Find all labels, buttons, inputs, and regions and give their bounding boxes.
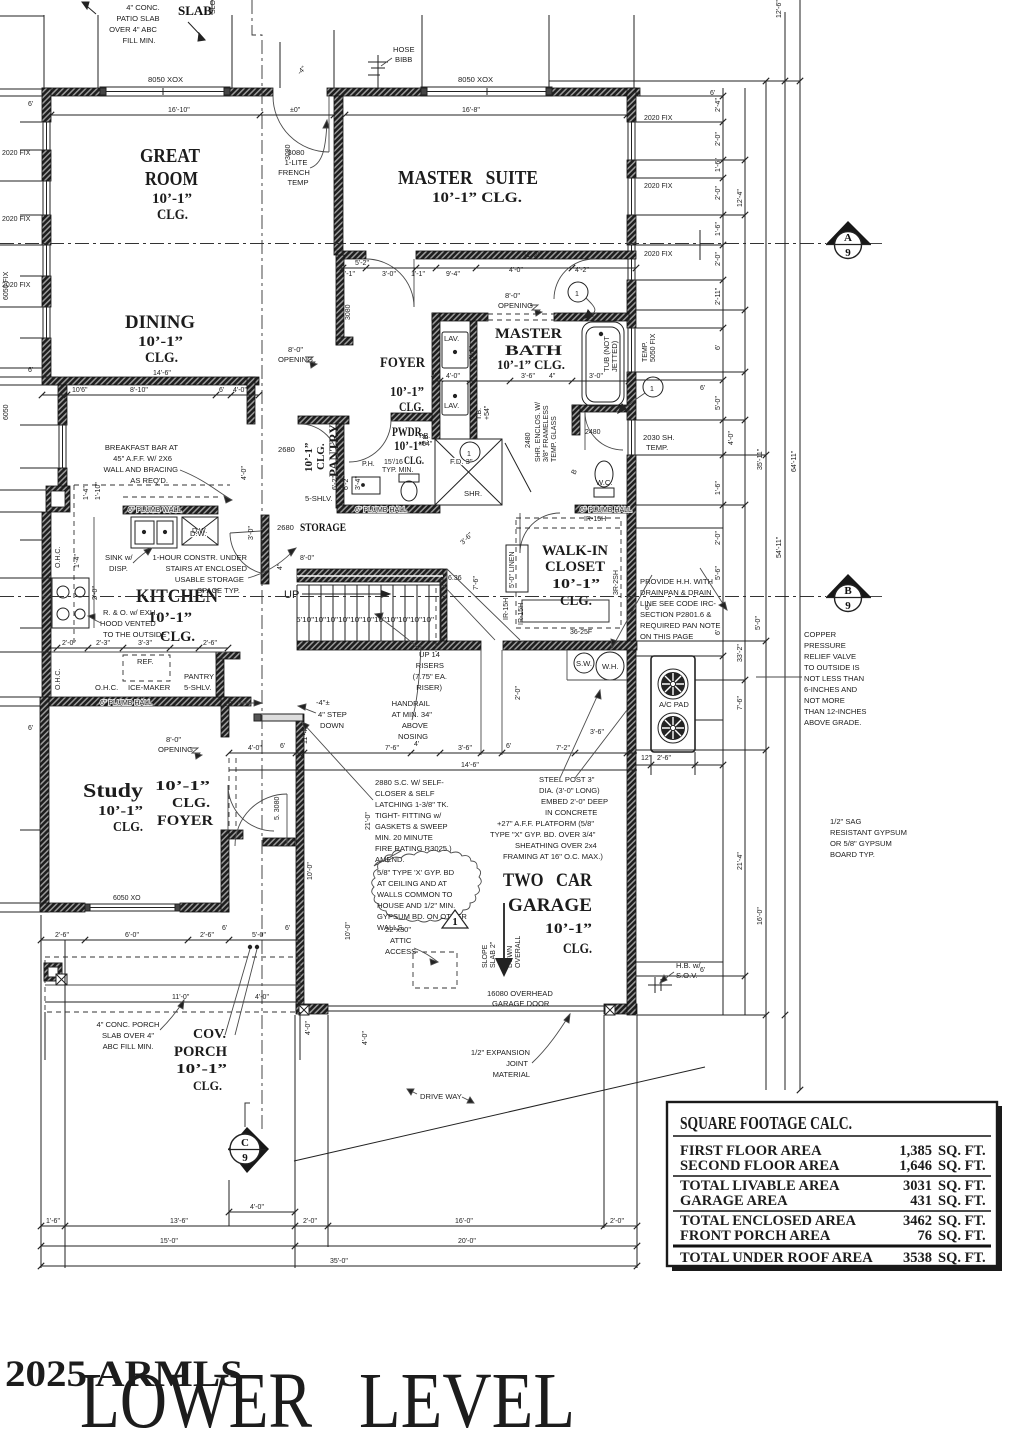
- svg-text:2'-0": 2'-0": [715, 186, 722, 200]
- svg-text:COV.: COV.: [193, 1027, 226, 1042]
- svg-text:FOYER: FOYER: [380, 355, 425, 371]
- right ladder ticks: [720, 78, 803, 1093]
- svg-text:ON THIS PAGE: ON THIS PAGE: [640, 632, 693, 641]
- svg-text:3'-6": 3'-6": [458, 745, 472, 752]
- svg-text:8'-10": 8'-10": [130, 387, 148, 394]
- svg-text:16'-10": 16'-10": [168, 107, 190, 114]
- room label PANTRY rotated: [303, 424, 341, 477]
- svg-text:Study: Study: [83, 780, 143, 802]
- porch post dots: [225, 945, 259, 1035]
- copper pressure note: [804, 630, 866, 727]
- svg-text:6" PLUMB HALL: 6" PLUMB HALL: [100, 700, 152, 707]
- svg-text:2020 FIX: 2020 FIX: [2, 150, 31, 157]
- wall foyer west: [336, 255, 344, 345]
- svg-text:PANTRY: PANTRY: [326, 424, 341, 477]
- svg-text:2'-0": 2'-0": [303, 1218, 317, 1225]
- svg-text:AS REQ'D.: AS REQ'D.: [130, 476, 168, 485]
- svg-text:±0": ±0": [224, 699, 235, 708]
- svg-text:W.H.: W.H.: [602, 662, 618, 671]
- svg-text:8050 XOX: 8050 XOX: [458, 75, 493, 84]
- svg-text:R. & O. w/ EXH.: R. & O. w/ EXH.: [103, 608, 157, 617]
- svg-text:HOUSE AND 1/2" MIN.: HOUSE AND 1/2" MIN.: [377, 901, 455, 910]
- pantry box kitchen: [216, 652, 224, 697]
- door arc walk-in closet 2680: [520, 513, 560, 553]
- svg-text:STAIRS AT ENCLOSED: STAIRS AT ENCLOSED: [166, 564, 248, 573]
- svg-text:SQ. FT.: SQ. FT.: [938, 1250, 986, 1266]
- svg-text:SLAB: SLAB: [178, 3, 212, 18]
- svg-text:21'-4": 21'-4": [737, 852, 744, 870]
- svg-text:35'-11": 35'-11": [757, 448, 764, 470]
- svg-text:21'-0": 21'-0": [365, 812, 372, 830]
- wall right exterior: [627, 88, 636, 1015]
- svg-text:1'-6": 1'-6": [46, 1218, 60, 1225]
- svg-text:4'-0": 4'-0": [241, 466, 248, 480]
- svg-text:FRENCH: FRENCH: [278, 168, 310, 177]
- hose bibb label: [393, 45, 415, 64]
- svg-text:3538: 3538: [903, 1250, 932, 1266]
- svg-text:SLOPE: SLOPE: [482, 944, 489, 968]
- svg-text:11'-0": 11'-0": [172, 994, 190, 1001]
- svg-text:IR-15H: IR-15H: [518, 603, 525, 625]
- opening 8-0 label foyer left: [278, 345, 313, 364]
- svg-text:3080: 3080: [345, 304, 352, 320]
- svg-text:3'-6": 3'-6": [459, 531, 474, 546]
- room label DINING: [125, 312, 195, 366]
- svg-text:BIBB: BIBB: [395, 55, 412, 64]
- svg-text:3'-0": 3'-0": [248, 526, 255, 540]
- svg-text:4'-0": 4'-0": [509, 267, 523, 274]
- wall study east: [221, 697, 229, 737]
- wall kitchen west jut with 6050 XO window: [58, 385, 67, 425]
- svg-text:45" A.F.F. W/ 2X6: 45" A.F.F. W/ 2X6: [113, 454, 172, 463]
- svg-text:TYPE "X" GYP. BD. OVER 3/4": TYPE "X" GYP. BD. OVER 3/4": [490, 830, 596, 839]
- svg-text:NOSING: NOSING: [398, 732, 428, 741]
- wall kitchen south / plumb hall: [42, 697, 251, 706]
- svg-text:PANTRY: PANTRY: [184, 672, 214, 681]
- powder lavatory: [352, 477, 380, 494]
- svg-text:SECOND FLOOR AREA: SECOND FLOOR AREA: [680, 1158, 840, 1174]
- window 8050 XOX great room: [100, 87, 230, 96]
- svg-text:8050 XOX: 8050 XOX: [148, 75, 183, 84]
- door arc french top: [273, 96, 329, 152]
- svg-text:2'-0": 2'-0": [715, 252, 722, 266]
- svg-text:USABLE STORAGE: USABLE STORAGE: [175, 575, 244, 584]
- porch corner post: [44, 963, 67, 985]
- svg-text:6': 6': [700, 385, 705, 392]
- slope arrow garage: [482, 936, 522, 968]
- svg-text:3'-6": 3'-6": [590, 729, 604, 736]
- kitchen island plumb wall: [123, 506, 218, 514]
- marker C-9: [228, 1103, 269, 1173]
- garage right dim line: [637, 752, 698, 775]
- walk-in closet shelf box: [522, 600, 609, 622]
- svg-text:5'-6": 5'-6": [715, 566, 722, 580]
- svg-text:2'-11": 2'-11": [715, 287, 722, 305]
- step down platform entry: [254, 714, 303, 721]
- provide HH note: [640, 577, 720, 641]
- svg-text:ABOVE GRADE.: ABOVE GRADE.: [804, 718, 861, 727]
- svg-text:1'-1": 1'-1": [341, 271, 355, 278]
- A/C pad unit: [651, 656, 695, 752]
- svg-text:5'-0": 5'-0": [715, 396, 722, 410]
- svg-text:HOSE: HOSE: [393, 45, 415, 54]
- foyer-suite dim row: [337, 265, 639, 271]
- expansion joint note: [471, 1048, 530, 1079]
- svg-text:6" PLUMB HALL: 6" PLUMB HALL: [355, 507, 407, 514]
- svg-text:76: 76: [918, 1228, 933, 1244]
- svg-text:CLG.: CLG.: [145, 350, 178, 366]
- shower master: [435, 439, 531, 505]
- svg-text:SQ. FT.: SQ. FT.: [938, 1178, 986, 1194]
- svg-text:ABC FILL MIN.: ABC FILL MIN.: [103, 1042, 154, 1051]
- storage under stairs note: [152, 553, 247, 595]
- svg-text:2020 FIX: 2020 FIX: [644, 251, 673, 258]
- svg-text:6': 6': [715, 345, 722, 350]
- svg-text:W.C.: W.C.: [596, 478, 612, 487]
- svg-text:13'-6": 13'-6": [170, 1218, 188, 1225]
- svg-text:2020 FIX: 2020 FIX: [644, 183, 673, 190]
- svg-text:LAV.: LAV.: [444, 334, 459, 343]
- wall left exterior lower (study): [40, 697, 49, 912]
- svg-text:O.H.C.: O.H.C.: [55, 547, 62, 568]
- svg-text:4": 4": [277, 563, 284, 570]
- svg-text:2'-6": 2'-6": [657, 755, 671, 762]
- bottom dim row 1: [38, 1223, 640, 1229]
- svg-text:1: 1: [467, 451, 471, 458]
- wall hall south band: [337, 505, 440, 513]
- room label FOYER lower: [155, 779, 213, 829]
- svg-text:STORAGE: STORAGE: [300, 520, 346, 534]
- svg-text:1'-4": 1'-4": [74, 554, 81, 568]
- svg-text:4'-0": 4'-0": [233, 387, 247, 394]
- soft water unit S.W.: [574, 653, 594, 673]
- svg-text:CLG.: CLG.: [113, 820, 143, 835]
- svg-text:CLG.: CLG.: [172, 796, 210, 811]
- platform lines under W.H.: [567, 650, 627, 680]
- room label Study: [83, 780, 143, 835]
- svg-text:1'-1": 1'-1": [411, 271, 425, 278]
- svg-text:MASTER: MASTER: [495, 326, 562, 342]
- centerline B horizontal: [0, 596, 885, 598]
- svg-text:4'-0": 4'-0": [362, 1031, 369, 1045]
- svg-text:OPENING: OPENING: [158, 745, 193, 754]
- column kitchen corner: [46, 486, 70, 512]
- svg-text:THAN 12-INCHES: THAN 12-INCHES: [804, 707, 866, 716]
- svg-text:5'-0": 5'-0": [755, 616, 762, 630]
- svg-text:16'-0": 16'-0": [455, 1218, 473, 1225]
- svg-text:10’-1” CLG.: 10’-1” CLG.: [497, 357, 565, 372]
- svg-text:ATTIC: ATTIC: [390, 936, 412, 945]
- svg-text:AT CEILING AND AT: AT CEILING AND AT: [377, 879, 447, 888]
- bath dim row: [432, 378, 632, 384]
- svg-text:10'-0": 10'-0": [345, 922, 352, 940]
- svg-text:IN CONCRETE: IN CONCRETE: [545, 808, 597, 817]
- svg-text:35'-0": 35'-0": [330, 1258, 348, 1265]
- wall hall west of powder: [298, 416, 349, 424]
- svg-text:1'-4": 1'-4": [83, 486, 90, 500]
- toilet master W.C.: [594, 461, 614, 497]
- svg-text:MIN. 20 MINUTE: MIN. 20 MINUTE: [375, 833, 433, 842]
- svg-text:+54": +54": [418, 441, 433, 448]
- svg-text:1'-6": 1'-6": [715, 481, 722, 495]
- svg-text:15'-0": 15'-0": [160, 1238, 178, 1245]
- kitchen counter dashed: [74, 485, 230, 645]
- svg-text:1-LITE: 1-LITE: [285, 158, 308, 167]
- svg-text:WALL AND BRACING: WALL AND BRACING: [103, 465, 178, 474]
- svg-text:6': 6': [285, 925, 290, 932]
- svg-text:TOTAL ENCLOSED AREA: TOTAL ENCLOSED AREA: [680, 1213, 856, 1229]
- svg-text:B: B: [844, 585, 852, 597]
- svg-text:5'-0": 5'-0": [252, 932, 266, 939]
- triangle callout 1: [442, 910, 468, 928]
- svg-text:TEMP.: TEMP.: [642, 341, 649, 362]
- svg-text:STEEL POST 3": STEEL POST 3": [539, 775, 595, 784]
- wall bath interior: [470, 321, 477, 439]
- wall dining south: [42, 377, 259, 385]
- svg-text:6': 6': [280, 743, 285, 750]
- svg-text:10’-1”: 10’-1”: [552, 577, 600, 592]
- hose bibb garage symbol: [648, 977, 672, 993]
- svg-text:1/2" SAG: 1/2" SAG: [830, 817, 861, 826]
- svg-text:C: C: [241, 1137, 249, 1149]
- study bottom dim row: [38, 937, 303, 943]
- circle callout 1 right: [618, 377, 663, 413]
- square footage table: [667, 1102, 1002, 1271]
- svg-text:-4"±: -4"±: [316, 698, 330, 707]
- svg-text:1-HOUR CONSTR. UNDER: 1-HOUR CONSTR. UNDER: [152, 553, 247, 562]
- svg-text:20'-0": 20'-0": [458, 1238, 476, 1245]
- svg-text:7'-6": 7'-6": [737, 696, 744, 710]
- room label MASTER BATH: [495, 326, 565, 372]
- room label GREAT ROOM: [140, 145, 201, 223]
- svg-text:12'-6": 12'-6": [776, 0, 783, 18]
- svg-text:LATCHING 1-3/8" TK.: LATCHING 1-3/8" TK.: [375, 800, 449, 809]
- svg-text:1'-6": 1'-6": [715, 158, 722, 172]
- svg-text:SQ. FT.: SQ. FT.: [938, 1193, 986, 1209]
- dining lower dim line: [39, 392, 262, 398]
- svg-text:2'-6": 2'-6": [55, 932, 69, 939]
- svg-text:15'/16: 15'/16: [384, 459, 403, 466]
- svg-text:EMBED 2'-0" DEEP: EMBED 2'-0" DEEP: [541, 797, 608, 806]
- svg-text:(7.75" EA.: (7.75" EA.: [413, 672, 447, 681]
- svg-text:A: A: [844, 232, 852, 244]
- svg-text:ROOM: ROOM: [145, 168, 198, 190]
- svg-text:1,385: 1,385: [899, 1143, 932, 1159]
- svg-text:4'-0": 4'-0": [728, 431, 735, 445]
- garage self closer note: [375, 778, 452, 864]
- centerline A horizontal: [0, 243, 885, 245]
- svg-text:2'-6": 2'-6": [203, 640, 217, 647]
- svg-text:HOOD VENTED: HOOD VENTED: [100, 619, 156, 628]
- svg-text:6'-0": 6'-0": [125, 932, 139, 939]
- svg-text:RISER): RISER): [416, 683, 442, 692]
- svg-text:LINE SEE CODE IRC-: LINE SEE CODE IRC-: [640, 599, 716, 608]
- svg-text:CLG.: CLG.: [157, 207, 188, 223]
- svg-text:DRAINPAN & DRAIN: DRAINPAN & DRAIN: [640, 588, 712, 597]
- garage sill X boxes: [299, 1005, 615, 1015]
- svg-text:6'-2": 6'-2": [343, 476, 350, 490]
- svg-text:8'-0": 8'-0": [288, 345, 303, 354]
- svg-text:4" CONC. PORCH: 4" CONC. PORCH: [96, 1020, 159, 1029]
- attic access note: [385, 925, 416, 956]
- sink note: [105, 553, 133, 573]
- wall master suite south: [337, 251, 366, 259]
- svg-text:2'-0": 2'-0": [515, 686, 522, 700]
- opening 8-0 label study: [158, 735, 193, 754]
- wall powder east: [432, 313, 440, 439]
- svg-text:LOWER: LOWER: [80, 1358, 312, 1434]
- breakfast bar note: [103, 443, 178, 485]
- bath lavatory 2: [442, 381, 468, 415]
- svg-text:RISERS: RISERS: [416, 661, 444, 670]
- svg-text:5050 FIX: 5050 FIX: [650, 333, 657, 362]
- svg-text:PATIO SLAB: PATIO SLAB: [116, 14, 159, 23]
- svg-text:TEMP. GLASS: TEMP. GLASS: [551, 416, 558, 462]
- svg-text:2020 FIX: 2020 FIX: [2, 216, 31, 223]
- svg-text:UP 14: UP 14: [419, 650, 440, 659]
- svg-text:BOARD TYP.: BOARD TYP.: [830, 850, 875, 859]
- wall toilet room north: [572, 405, 629, 412]
- wall master bath north with opening: [432, 313, 488, 321]
- room label KITCHEN: [136, 586, 218, 645]
- svg-text:O.H.C.: O.H.C.: [55, 669, 62, 690]
- svg-text:2'-0": 2'-0": [715, 132, 722, 146]
- svg-text:9: 9: [845, 600, 851, 612]
- door arc storage 2680: [230, 531, 261, 573]
- svg-text:2'-4": 2'-4": [715, 98, 722, 112]
- hood vent note: [100, 608, 166, 639]
- wall garage south corners and door sill: [296, 1004, 328, 1014]
- svg-text:WALLS COMMON TO: WALLS COMMON TO: [377, 890, 452, 899]
- svg-text:UP: UP: [284, 589, 299, 601]
- windows 2020 FIX right wall: [628, 122, 635, 455]
- svg-text:6050: 6050: [3, 404, 10, 420]
- wall stairs east: [440, 569, 447, 641]
- patio slab note: [109, 3, 160, 45]
- svg-text:12'-4": 12'-4": [737, 189, 744, 207]
- svg-text:NOT LESS THAN: NOT LESS THAN: [804, 674, 864, 683]
- svg-text:+27" A.F.F. PLATFORM (5/8": +27" A.F.F. PLATFORM (5/8": [497, 819, 594, 828]
- svg-text:OPENING: OPENING: [278, 355, 313, 364]
- svg-text:TYP. MIN.: TYP. MIN.: [382, 467, 413, 474]
- wall study south with 6050 XO window: [40, 903, 85, 912]
- svg-text:2'-0": 2'-0": [610, 1218, 624, 1225]
- svg-text:FIRST FLOOR AREA: FIRST FLOOR AREA: [680, 1143, 822, 1159]
- svg-text:1: 1: [650, 386, 654, 393]
- walk-in closet shelving dashed: [516, 518, 621, 628]
- dishwasher D.W.: [182, 517, 218, 545]
- wall master suite west: [334, 96, 343, 255]
- kitchen counter edge: [51, 517, 228, 697]
- room label WALK-IN CLOSET: [542, 543, 608, 609]
- svg-text:4": 4": [549, 373, 556, 380]
- svg-text:3462: 3462: [903, 1213, 932, 1229]
- svg-text:JOINT: JOINT: [506, 1059, 528, 1068]
- svg-text:8'-0": 8'-0": [505, 291, 520, 300]
- shr enclosure note rotated: [535, 402, 558, 462]
- svg-text:OVER 4" ABC: OVER 4" ABC: [109, 25, 157, 34]
- svg-text:PROVIDE H.H. WITH: PROVIDE H.H. WITH: [640, 577, 713, 586]
- svg-text:SHR. ENCLOS. W/: SHR. ENCLOS. W/: [535, 402, 542, 462]
- powder toilet: [399, 474, 419, 501]
- door arc front entry 3080: [235, 794, 287, 846]
- circle callout 1 at tub: [568, 282, 595, 318]
- svg-text:3'-4": 3'-4": [355, 476, 362, 490]
- door arc foyer closet: [300, 424, 338, 462]
- svg-text:ABOVE: ABOVE: [402, 721, 428, 730]
- svg-text:HANDRAIL: HANDRAIL: [392, 699, 430, 708]
- svg-text:6': 6': [28, 101, 33, 108]
- svg-text:GREAT: GREAT: [140, 145, 201, 167]
- svg-text:SLAB 2": SLAB 2": [490, 941, 497, 968]
- svg-text:10’-1”: 10’-1”: [390, 385, 424, 400]
- wall left exterior mid (kitchen): [42, 512, 51, 697]
- svg-text:5'-0" LINEN: 5'-0" LINEN: [509, 551, 516, 588]
- svg-text:14'-6": 14'-6": [461, 762, 479, 769]
- svg-text:9: 9: [845, 247, 851, 259]
- linen cabinet: [506, 545, 528, 592]
- svg-text:SQ. FT.: SQ. FT.: [938, 1213, 986, 1229]
- svg-text:6.36: 6.36: [448, 575, 462, 582]
- stairs treads and risers: [297, 569, 520, 652]
- svg-text:MATERIAL: MATERIAL: [493, 1070, 530, 1079]
- svg-text:431: 431: [910, 1193, 932, 1209]
- svg-text:1'-6": 1'-6": [715, 222, 722, 236]
- svg-text:2'-0": 2'-0": [62, 640, 76, 647]
- svg-text:+54": +54": [484, 405, 491, 420]
- svg-text:10’-1” CLG.: 10’-1” CLG.: [432, 190, 522, 206]
- svg-text:GARAGE DOOR: GARAGE DOOR: [492, 999, 550, 1008]
- svg-text:10'-0": 10'-0": [307, 862, 314, 880]
- svg-text:RESISTANT GYPSUM: RESISTANT GYPSUM: [830, 828, 907, 837]
- svg-text:REF.: REF.: [137, 657, 153, 666]
- svg-text:9'-4": 9'-4": [446, 271, 460, 278]
- svg-text:33'-2": 33'-2": [737, 644, 744, 662]
- stair upper stringer: [297, 569, 443, 582]
- svg-text:H.B. w/: H.B. w/: [676, 961, 701, 970]
- svg-text:7'-2": 7'-2": [556, 745, 570, 752]
- svg-text:SHR.: SHR.: [464, 489, 482, 498]
- up risers note: [413, 650, 447, 692]
- opening 8'-0 dashed: [488, 314, 554, 320]
- svg-text:±0": ±0": [290, 107, 301, 114]
- svg-text:6': 6': [219, 387, 224, 394]
- room label MASTER SUITE: [398, 167, 538, 206]
- sag gypsum note: [830, 817, 907, 859]
- svg-text:RELIEF VALVE: RELIEF VALVE: [804, 652, 856, 661]
- svg-text:DINING: DINING: [125, 312, 195, 333]
- svg-text:10’-1”: 10’-1”: [155, 779, 210, 794]
- svg-text:PORCH: PORCH: [174, 1044, 227, 1060]
- svg-text:SQ. FT.: SQ. FT.: [938, 1143, 986, 1159]
- centerline vertical dash-dot: [252, 0, 262, 1130]
- svg-text:1'-10": 1'-10": [95, 482, 102, 500]
- svg-text:S.W.: S.W.: [576, 659, 592, 668]
- svg-text:SLAB OVER 4": SLAB OVER 4": [102, 1031, 154, 1040]
- svg-text:REQUIRED PAN NOTE: REQUIRED PAN NOTE: [640, 621, 720, 630]
- wall pantry west: [336, 424, 344, 508]
- svg-text:64'-11": 64'-11": [791, 450, 798, 472]
- svg-text:LAV.: LAV.: [444, 401, 459, 410]
- porch dashed outline: [45, 957, 300, 1012]
- svg-text:GARAGE: GARAGE: [508, 895, 592, 916]
- svg-text:AT MIN. 34": AT MIN. 34": [392, 710, 433, 719]
- svg-text:5. 3080: 5. 3080: [274, 797, 281, 820]
- svg-text:5-SHLV.: 5-SHLV.: [305, 494, 332, 503]
- study foyer dim row: [226, 750, 637, 756]
- svg-text:16'-8": 16'-8": [462, 107, 480, 114]
- svg-text:6'10"10"10"10"10"10"10"10"10"1: 6'10"10"10"10"10"10"10"10"10"10"10": [296, 617, 435, 624]
